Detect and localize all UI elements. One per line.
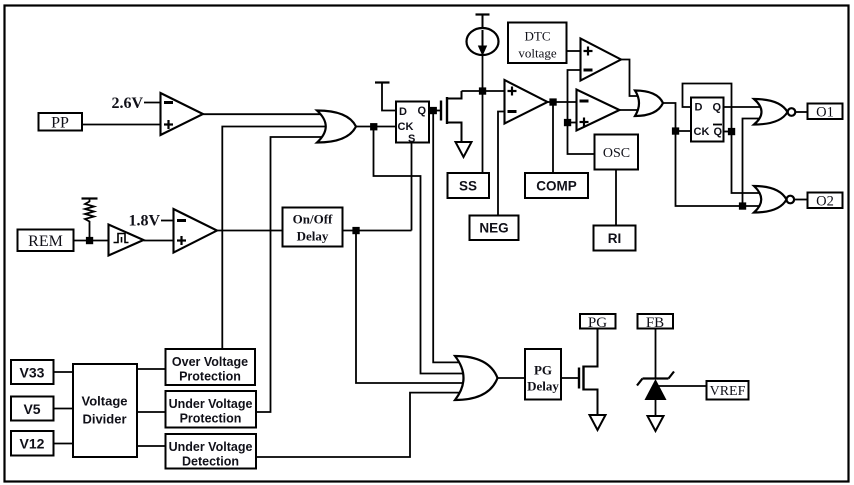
wire U3 output to or-gate G2 top input <box>621 60 638 97</box>
wire U4 output to or-gate G2 bottom input <box>620 109 639 111</box>
wire OSC to RI box <box>615 170 617 226</box>
wire UVD net to or-gate G5 input 4 <box>256 393 460 457</box>
wire SS node to comparator U2 plus input <box>462 90 505 92</box>
comparator U3 (dead-time) <box>581 39 622 81</box>
flip-flop FF1 <box>396 102 429 146</box>
wire FF2 Qbar output <box>724 131 732 133</box>
node blanking junction <box>740 203 746 209</box>
or-gate G2 <box>635 91 663 117</box>
svg-text:RI: RI <box>608 231 622 246</box>
wire divider to UVP <box>137 411 166 413</box>
svg-text:On/Off: On/Off <box>293 212 333 227</box>
wire U6 output to On/Off Delay box <box>217 230 283 232</box>
wire FF2 Q output to NOR G3 top input <box>724 106 761 108</box>
wire I1 down to node and SS <box>482 55 484 173</box>
input box V5 <box>11 397 54 421</box>
svg-text:Voltage: Voltage <box>82 394 128 409</box>
ground below Q1 <box>456 142 472 157</box>
svg-text:D: D <box>695 102 703 114</box>
svg-text:O1: O1 <box>816 105 834 121</box>
box PG <box>580 314 616 331</box>
svg-text:V12: V12 <box>20 436 45 452</box>
wire OVP net up to or-gate G1 middle input <box>222 127 326 350</box>
svg-text:Q: Q <box>418 105 427 117</box>
svg-text:D: D <box>399 106 407 118</box>
node SS junction <box>480 88 486 94</box>
box FB <box>638 314 674 331</box>
box PG Delay <box>525 349 561 400</box>
box DTC voltage <box>508 23 567 64</box>
svg-text:CK: CK <box>398 121 414 133</box>
svg-text:Divider: Divider <box>82 412 126 427</box>
node CK junction <box>371 124 377 130</box>
svg-text:2.6V: 2.6V <box>111 95 143 112</box>
wire G5 output to PG Delay <box>498 377 526 379</box>
wire U5 output to comparator U6 plus input <box>144 240 174 242</box>
svg-text:Delay: Delay <box>527 379 559 394</box>
wire zener to ground <box>655 400 657 416</box>
wire blanking net up to NOR G3 lower input <box>743 119 760 207</box>
node CK2 junction <box>673 128 679 134</box>
comparator U2 (error amp) <box>505 80 548 124</box>
input box REM <box>18 230 74 252</box>
svg-text:Delay: Delay <box>297 229 329 244</box>
wire delay net down to OR gate G5 input 3 <box>356 233 464 383</box>
input box PP <box>39 113 83 132</box>
wire UVP net up to or-gate G1 bottom input <box>256 137 322 412</box>
svg-text:O2: O2 <box>816 194 834 210</box>
wire V33 to divider <box>54 371 74 373</box>
comparator U6 (1.8V) <box>174 209 218 253</box>
input box V33 <box>11 360 54 384</box>
svg-text:REM: REM <box>28 233 63 250</box>
svg-text:PG: PG <box>588 315 607 331</box>
flip-flop FF2 <box>691 98 724 142</box>
svg-text:Detection: Detection <box>182 455 239 469</box>
svg-text:PP: PP <box>51 115 69 132</box>
wire DTC box to U3 plus input <box>567 50 581 52</box>
box Under Voltage Detection <box>166 434 257 469</box>
wire sawtooth node to U4 plus input <box>568 122 577 124</box>
svg-text:VREF: VREF <box>710 384 746 399</box>
node Qbar junction <box>729 129 735 135</box>
wire PG Delay to transistor Q2 gate <box>561 377 579 379</box>
ground below Q2 <box>590 415 606 430</box>
wire FB down to zener D1 <box>655 329 657 379</box>
current source I1 with supply tick <box>467 15 499 57</box>
wire G3 to O1 box <box>795 111 807 113</box>
transistor Q2 <box>579 329 598 415</box>
svg-text:COMP: COMP <box>536 179 577 194</box>
wire U3 minus input down to OSC <box>568 70 595 154</box>
output box O2 <box>808 193 843 210</box>
comparator U1 (2.6V) <box>161 93 204 135</box>
box On/Off Delay <box>283 208 343 247</box>
box OSC <box>595 135 639 170</box>
wire REM to buffer U5 <box>74 240 109 242</box>
wire PP to comparator U1 plus input <box>82 124 161 126</box>
svg-text:Protection: Protection <box>179 370 241 384</box>
wire On/Off Delay output to FF1 S <box>343 230 412 232</box>
node sawtooth junction <box>565 120 571 126</box>
svg-text:Q: Q <box>713 102 722 114</box>
transistor Q1 <box>441 91 462 141</box>
node REM junction <box>87 238 93 244</box>
svg-text:Under Voltage: Under Voltage <box>169 440 253 454</box>
buffer U5 with hysteresis <box>109 225 144 256</box>
resistor R1 <box>85 199 94 239</box>
ground below D1 <box>648 416 664 431</box>
svg-text:PG: PG <box>534 363 552 378</box>
output box O1 <box>808 104 843 121</box>
svg-text:V33: V33 <box>20 365 45 381</box>
wire FF2 D to Qbar feedback loop and down to NOR G4 top input <box>683 84 761 194</box>
wire V12 to divider <box>54 443 74 445</box>
box VREF <box>707 381 749 400</box>
input box V12 <box>11 431 54 456</box>
wire Q net down to OR gate G5 input 1 <box>433 113 459 362</box>
nor-gate G3 <box>754 99 795 125</box>
value label 1.8V <box>128 213 173 230</box>
svg-text:CK: CK <box>694 126 710 138</box>
box Under Voltage Protection <box>166 391 257 428</box>
nor-gate G4 <box>754 186 794 213</box>
or-gate G1 <box>317 111 356 143</box>
node Q junction <box>431 108 437 114</box>
wire CK2 net down to NOR G4 lower input <box>676 133 760 206</box>
svg-text:Q: Q <box>714 126 723 138</box>
wire G2 output to FF2 CK <box>663 103 691 131</box>
box NEG <box>470 216 519 241</box>
wire U2 output to U4 minus input <box>548 101 577 103</box>
wire divider to UVD <box>137 445 166 447</box>
wire FF1 Q output to transistor Q1 gate <box>429 110 441 112</box>
wire divider to OVP <box>137 368 166 370</box>
comparator U4 (PWM) <box>577 90 620 131</box>
svg-text:1.8V: 1.8V <box>128 213 160 230</box>
box Over Voltage Protection <box>166 349 256 385</box>
high-level tick at FF1 D input <box>375 83 396 111</box>
svg-text:NEG: NEG <box>479 221 508 236</box>
svg-text:Under Voltage: Under Voltage <box>169 397 253 411</box>
svg-text:DTC: DTC <box>525 29 551 44</box>
wire FF1 S net down to On/Off delay line <box>411 143 413 231</box>
wire G1 output to FF1 CK <box>356 126 396 128</box>
pull-up tick <box>82 197 98 199</box>
value label 2.6V <box>111 95 160 112</box>
wire U1 output to OR gate G1 <box>203 113 321 115</box>
wire U2 minus input down to NEG box <box>498 112 505 216</box>
box Voltage Divider <box>73 364 137 457</box>
zener D1 <box>637 372 674 401</box>
svg-text:voltage: voltage <box>518 46 556 61</box>
node COMP junction <box>550 99 556 105</box>
svg-text:V5: V5 <box>23 401 40 417</box>
svg-text:Over Voltage: Over Voltage <box>172 355 248 369</box>
svg-text:Protection: Protection <box>180 412 242 426</box>
svg-text:OSC: OSC <box>603 146 630 161</box>
or-gate G5 <box>455 356 498 400</box>
wire COMP node down to COMP box <box>552 102 554 173</box>
box COMP <box>525 173 588 198</box>
wire zener anode to VREF <box>657 385 707 387</box>
box SS <box>448 173 490 198</box>
box RI <box>594 226 636 251</box>
wire G4 to O2 box <box>794 199 807 201</box>
svg-text:SS: SS <box>459 179 477 194</box>
wire CK net down to OR gate G5 input 2 <box>374 127 464 374</box>
node delay junction <box>353 228 359 234</box>
wire V5 to divider <box>54 408 74 410</box>
